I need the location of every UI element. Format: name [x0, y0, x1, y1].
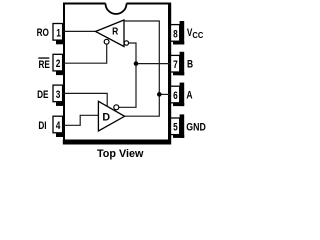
- wire A to pin 6: [159, 93, 170, 95]
- inverting input bubble on receiver base (B side): [124, 41, 128, 45]
- svg-text:CC: CC: [192, 30, 203, 40]
- svg-text:Top View: Top View: [97, 148, 144, 160]
- wire pin1 to receiver output: [63, 30, 96, 32]
- enable bubble on receiver (RE): [104, 39, 109, 44]
- pin 5 box: [171, 118, 180, 135]
- pin 5 lead shadow: [173, 114, 184, 138]
- svg-text:7: 7: [173, 59, 178, 72]
- pin 3 shadow: [56, 102, 65, 106]
- wire A net: receiver top corner right, down to apex level: [124, 21, 159, 116]
- svg-text:RE: RE: [38, 59, 50, 72]
- inverting output bubble on driver (B side): [114, 105, 119, 110]
- pin 7 lead shadow: [173, 52, 184, 76]
- wire B net: bubble right, down through junction to D inverted output: [119, 43, 136, 107]
- pin 6 lead shadow: [173, 83, 184, 107]
- pin 8 lead shadow: [173, 21, 184, 45]
- svg-text:A: A: [186, 89, 192, 101]
- svg-text:B: B: [187, 58, 193, 71]
- left edge: [63, 3, 65, 142]
- svg-text:5: 5: [173, 121, 178, 134]
- right edge (thick shadow): [168, 3, 171, 145]
- notch (pin-1 index semicircle): [106, 2, 127, 15]
- wire B to pin 7: [136, 63, 171, 65]
- pin 8 box: [171, 25, 180, 42]
- svg-text:R: R: [112, 26, 118, 37]
- pin 7 box: [171, 55, 180, 72]
- svg-text:DI: DI: [38, 120, 46, 133]
- svg-text:3: 3: [56, 89, 61, 102]
- junction dot B net: [134, 61, 139, 66]
- pin 6 box: [171, 86, 180, 103]
- svg-text:2: 2: [56, 58, 61, 71]
- svg-text:4: 4: [56, 120, 61, 133]
- svg-text:1: 1: [56, 27, 61, 40]
- top edge: [63, 3, 169, 5]
- pin 2 box: [53, 54, 63, 71]
- svg-text:D: D: [102, 111, 110, 123]
- driver U1b triangle D: [98, 101, 124, 131]
- label VCC (pin 8): [187, 27, 204, 40]
- pin 1 box: [53, 24, 63, 41]
- IC body U1 (DIP-8 outline): [63, 3, 171, 145]
- label RE with overline (pin 2): [38, 57, 50, 71]
- bottom edge (thick shadow): [63, 140, 171, 145]
- pin 4 box: [53, 116, 63, 133]
- receiver U1a triangle R: [96, 20, 125, 47]
- wire RE: pin2 right, up to enable bubble: [63, 44, 107, 63]
- svg-text:GND: GND: [186, 122, 206, 134]
- svg-text:6: 6: [173, 90, 178, 103]
- svg-text:RO: RO: [37, 27, 50, 40]
- pin 3 box: [53, 85, 63, 102]
- pin 4 shadow: [56, 133, 65, 137]
- wire DE: pin3 right, down to driver enable: [63, 93, 107, 106]
- pin 2 shadow: [56, 71, 65, 75]
- svg-text:8: 8: [173, 28, 178, 41]
- junction dot A net: [157, 92, 162, 97]
- pin 1 shadow: [56, 40, 65, 44]
- svg-text:DE: DE: [37, 89, 49, 102]
- wire DI: pin4 right, up, right into driver input: [63, 115, 98, 125]
